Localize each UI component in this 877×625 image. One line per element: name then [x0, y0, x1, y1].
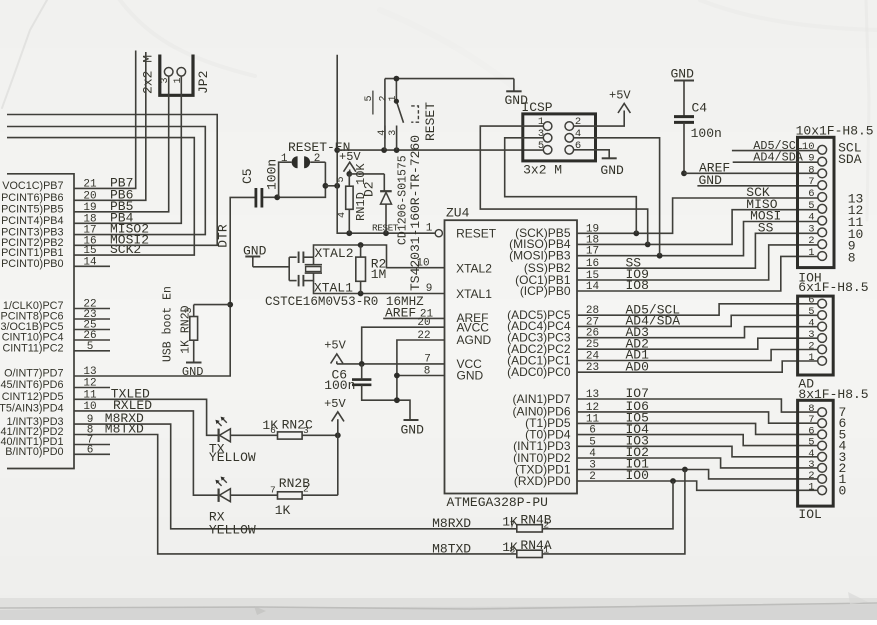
- junction C6/AGND bottom: [394, 397, 400, 403]
- wire RN4B to IO0: [542, 481, 673, 529]
- junction IO0/RN4B: [670, 478, 676, 484]
- IOL pin 8 circle: [818, 408, 827, 417]
- wire MISO2 to page edge: [7, 127, 205, 235]
- wire IO4 net: [577, 435, 818, 446]
- resistor R2 1M: [356, 257, 366, 281]
- wire MOSI2 to page edge: [7, 115, 217, 246]
- junction switch column A: [381, 147, 387, 153]
- IC ZU4 ATMEGA328P-PU: [445, 220, 578, 493]
- connector IOL 8x1F-H8.5: [798, 400, 834, 506]
- capacitor C6 100n: [352, 380, 371, 385]
- wire GND pin8: [397, 375, 445, 377]
- junction +5V rail / RN2C: [335, 432, 341, 438]
- ICSP pin 3 circle: [543, 134, 552, 143]
- wire C6 bottom to ground: [362, 385, 410, 420]
- pushbutton reset switch: [373, 79, 404, 151]
- ground bar (C4 top): [674, 80, 694, 82]
- resistor RN4A 1K: [517, 550, 543, 557]
- wire IO7 net: [577, 399, 818, 412]
- wire M8RXD long: [74, 424, 517, 529]
- wire C5 to RESET-EN pad 2: [263, 162, 325, 197]
- wire XTAL1 net: [314, 273, 445, 293]
- wire IO0 net: [577, 481, 818, 490]
- ZU4 RESET pin bubble: [435, 230, 442, 237]
- wire SCK2 to page edge: [7, 138, 194, 256]
- wire RN2B to +5V rail: [302, 494, 338, 496]
- pin 25 stub wire (U3): [74, 329, 110, 331]
- wire resonator center to GND: [253, 266, 289, 268]
- LED RX yellow: [215, 477, 230, 502]
- wire AD4/SDA net: [577, 315, 818, 326]
- wire PB6 to JP2 area: [74, 52, 146, 200]
- IOH pin 2 circle: [818, 240, 827, 249]
- resistor RN2C 1K: [278, 432, 303, 439]
- wire TXLED to LED: [74, 399, 218, 435]
- junction +5V/RN1D/D2: [346, 171, 352, 177]
- pin 12 stub wire (U3): [74, 387, 110, 389]
- wire reset line to ICSP pin5: [337, 149, 543, 151]
- wire AD4/SDA stub (IOH9): [733, 161, 818, 163]
- resistor RN2B 1K: [278, 492, 303, 499]
- wire RN1D top lead: [348, 174, 350, 186]
- +5V arrow (LED rail): [332, 412, 344, 422]
- AD pin 2 circle: [818, 345, 827, 354]
- wire ICSP pin1 MISO: [480, 126, 647, 244]
- resistor RN2D 1K: [190, 317, 198, 341]
- AD pin 6 circle: [818, 299, 827, 308]
- IOH pin 9 circle: [818, 157, 827, 166]
- wire AREF stub: [383, 317, 444, 319]
- wire C6 top lead: [361, 364, 363, 380]
- wire R2 bottom lead: [360, 281, 362, 293]
- wire IO3 net: [577, 446, 818, 457]
- junction D2 anode: [383, 230, 389, 236]
- IOH pin 3 circle: [818, 228, 827, 237]
- pin 6 stub wire (U3): [74, 453, 110, 455]
- IOH pin 10 circle: [818, 145, 827, 154]
- wire +5V rail down to RN2B: [337, 419, 339, 495]
- JP2 pin 3 circle: [164, 68, 173, 77]
- diode D2: [380, 191, 392, 204]
- wire +5V to ICSP pin2: [574, 111, 625, 127]
- junction R2 bottom: [358, 291, 364, 297]
- junction reset rail / reset-en line: [334, 147, 340, 153]
- junction RESET-EN pad2 branch: [323, 183, 329, 189]
- IOH pin 7 circle: [818, 181, 827, 190]
- wire RN2D bottom lead: [193, 340, 195, 362]
- wire ICSP pin4 MOSI: [574, 138, 660, 256]
- IOH pin 1 circle: [818, 252, 827, 261]
- wire reset rail to ZU4 RESET: [337, 55, 435, 233]
- connector JP2 (2x2 M): [160, 55, 193, 96]
- wire D2 anode lead: [385, 204, 387, 233]
- wire IO8 net (PB0 to IOH1): [577, 256, 818, 291]
- wire ICSP pin6 to GND: [574, 150, 610, 159]
- capacitor C5 100n: [256, 188, 262, 208]
- resonator Y1 CSTCE16M0V53: [289, 252, 322, 287]
- junction IO1/RN4A: [682, 467, 688, 473]
- pin 22 stub wire (U3): [74, 308, 110, 310]
- switch contact dot: [394, 99, 399, 104]
- junction reset rail: [334, 183, 340, 189]
- wire IO2 net: [577, 458, 818, 468]
- pin 23 stub wire (U3): [74, 318, 110, 320]
- pin 5 stub wire (U3): [74, 350, 110, 352]
- ICSP pin 2 circle: [565, 122, 574, 131]
- wire IO6 net: [577, 412, 818, 423]
- wire AD2 net: [577, 338, 818, 349]
- junction C4/AREF: [681, 170, 687, 176]
- wire PB7 to JP2 area: [74, 51, 136, 189]
- ICSP pin 1 circle: [543, 122, 552, 131]
- IOH pin 6 circle: [818, 193, 827, 202]
- junction switch pin1 top: [394, 76, 400, 82]
- wire XTAL2 net: [314, 245, 445, 268]
- ground symbol (resonator): [245, 257, 260, 267]
- capacitor C4 100n: [674, 117, 694, 123]
- wire C4 top lead: [683, 81, 685, 117]
- resistor RN1D 10K: [346, 186, 353, 209]
- IOL pin 4 circle: [818, 452, 827, 461]
- junction DTR/RN2D: [227, 302, 233, 308]
- wire AVCC to +5V: [362, 327, 445, 364]
- wire M8TXD long: [74, 435, 517, 554]
- wire IO5 net: [577, 423, 818, 434]
- wire RN2D top lead: [193, 305, 195, 317]
- IOL pin 2 circle: [818, 475, 827, 484]
- wire RN4A to IO1: [542, 470, 685, 554]
- wire RESET-EN pad2 to corner: [310, 161, 325, 163]
- wire C4 bottom lead: [683, 122, 685, 173]
- wire AD1 net: [577, 350, 818, 361]
- +5V arrow (reset pullup): [344, 162, 356, 172]
- ICSP pin 5 circle: [543, 146, 552, 155]
- wire +5V stem: [349, 170, 351, 174]
- ICSP pin 4 circle: [565, 134, 574, 143]
- wire AREF to IOH pin8: [684, 172, 818, 174]
- wire AD5/SCL net: [577, 304, 818, 315]
- wire +5V stem (VCC): [336, 361, 338, 364]
- AD pin 3 circle: [818, 334, 827, 343]
- wire PB4 to JP2 pin 1: [74, 76, 181, 223]
- wire IO9 net (PB1 to IOH2): [577, 245, 818, 280]
- wire RN1D bottom lead: [348, 209, 350, 233]
- switch button bracket: [411, 106, 418, 122]
- wire RESET-EN pad1 to C5 line: [279, 162, 292, 197]
- IOL pin 6 circle: [818, 430, 827, 439]
- junction RN1D bottom: [346, 230, 352, 236]
- wire RN2D branch: [194, 304, 231, 306]
- IOL pin 5 circle: [818, 441, 827, 450]
- AD pin 1 circle: [818, 357, 827, 366]
- junction C6/AVCC: [359, 361, 365, 367]
- IC U3 (USB interface, clipped at page edge): [7, 174, 74, 469]
- wire D2 cathode lead: [383, 174, 385, 191]
- wire AD0 net: [577, 361, 818, 372]
- wire DTR from U3 pin13 to C5: [74, 197, 255, 376]
- +5V arrow (VCC): [331, 354, 343, 364]
- wire ICSP pin3 SCK: [505, 138, 637, 234]
- wire switch to GND: [385, 78, 514, 80]
- wire SS net (PB2 to IOH3): [577, 233, 818, 268]
- +5V arrow (ICSP): [618, 104, 630, 114]
- wire PB5 to JP2 pin 3: [74, 76, 169, 212]
- wire R2 top lead: [360, 245, 362, 257]
- IOL pin 7 circle: [818, 419, 827, 428]
- IOH pin 5 circle: [818, 204, 827, 213]
- solder jumper RESET-EN: [292, 156, 311, 168]
- pin 26 stub wire (U3): [74, 339, 110, 341]
- wire MISO net (PB4 to IOH5): [577, 210, 818, 245]
- junction SCK/ICSP3: [633, 230, 639, 236]
- wire IO1 net: [577, 470, 818, 479]
- ground (C6/AGND): [404, 419, 419, 421]
- connector ICSP 3x2 M: [523, 114, 596, 161]
- connector AD 6x1F-H8.5: [798, 296, 834, 375]
- junction R2 top: [358, 242, 364, 248]
- IOH pin 4 circle: [818, 216, 827, 225]
- IOL pin 1 circle: [818, 486, 827, 495]
- wire AGND down: [397, 340, 445, 400]
- wire MOSI net (PB3 to IOH4): [577, 222, 818, 256]
- pin 7 stub wire (U3): [74, 444, 110, 446]
- AD pin 4 circle: [818, 322, 827, 331]
- wire +5V to D2: [349, 173, 384, 175]
- resistor RN4B 1K: [517, 525, 543, 532]
- wire +5V to VCC pin: [337, 363, 445, 365]
- junction C5/RESET-EN pad1: [274, 194, 280, 200]
- pin 14 stub wire (U3): [74, 265, 110, 267]
- wire GND stub to IOH pin7: [697, 185, 817, 187]
- wire AD5/SCL stub (IOH10): [732, 150, 818, 152]
- ground (ICSP pin6): [602, 157, 617, 159]
- AD pin 5 circle: [818, 311, 827, 320]
- wire LED TX to RN2C: [231, 434, 278, 436]
- wire RN2C to +5V rail: [302, 434, 338, 436]
- connector IOH 10x1F-H8.5: [798, 137, 835, 267]
- junction AGND/GND: [394, 373, 400, 379]
- junction MOSI/ICSP4: [657, 253, 663, 259]
- IOL pin 3 circle: [818, 464, 827, 473]
- junction MISO/ICSP1: [645, 242, 651, 248]
- IOH pin 8 circle: [818, 169, 827, 178]
- wire SCK net (PB5 to IOH6): [577, 198, 818, 233]
- junction switch column B: [394, 147, 400, 153]
- wire RXLED to LED: [74, 411, 218, 495]
- LED TX yellow: [215, 417, 230, 442]
- ICSP pin 6 circle: [565, 146, 574, 155]
- wire LED RX to RN2B: [231, 494, 278, 496]
- wire pad2 branch to reset rail: [325, 185, 337, 187]
- ground (RN2D): [186, 362, 202, 364]
- JP2 pin 1 circle: [177, 68, 186, 77]
- ground (switch): [506, 79, 521, 92]
- wire AD3 net: [577, 327, 818, 338]
